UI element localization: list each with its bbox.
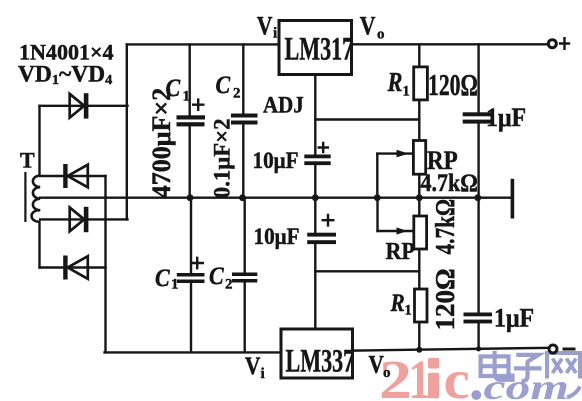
svg-text:RP: RP [386, 238, 415, 265]
svg-text:1μF: 1μF [486, 104, 526, 132]
svg-text:4.7kΩ: 4.7kΩ [421, 170, 478, 198]
svg-text:1: 1 [183, 89, 191, 105]
svg-text:R: R [387, 68, 403, 97]
svg-text:T: T [20, 148, 35, 173]
svg-text:0.1μF×2: 0.1μF×2 [209, 119, 235, 199]
svg-text:V: V [360, 13, 376, 41]
svg-text:2: 2 [233, 86, 241, 102]
svg-text:10μF: 10μF [254, 223, 300, 249]
svg-text:120Ω: 120Ω [430, 268, 460, 330]
svg-text:i: i [261, 366, 265, 382]
svg-text:V: V [257, 13, 273, 41]
svg-text:R: R [390, 289, 405, 317]
svg-text:VD1~VD4: VD1~VD4 [18, 62, 112, 88]
svg-text:C: C [155, 265, 170, 293]
svg-text:1: 1 [403, 84, 410, 100]
svg-text:120Ω: 120Ω [428, 67, 478, 102]
svg-text:4.7kΩ: 4.7kΩ [431, 199, 461, 255]
svg-text:1μF: 1μF [494, 305, 534, 333]
svg-text:o: o [383, 365, 391, 381]
svg-text:C: C [209, 263, 224, 291]
svg-text:1: 1 [409, 350, 431, 401]
svg-text:V: V [369, 351, 385, 379]
svg-text:V: V [245, 352, 261, 380]
svg-text:4700μF×2: 4700μF×2 [147, 88, 176, 198]
svg-text:LM337: LM337 [286, 343, 355, 379]
svg-text:LM317: LM317 [285, 31, 354, 67]
svg-text:C: C [216, 72, 231, 100]
svg-text:i: i [273, 26, 277, 42]
svg-text:1: 1 [405, 303, 412, 319]
svg-text:10μF: 10μF [253, 147, 299, 173]
svg-text:ADJ: ADJ [263, 91, 304, 117]
svg-text:1: 1 [171, 277, 179, 293]
svg-text:2: 2 [225, 277, 233, 293]
svg-text:c: c [444, 350, 470, 401]
svg-text:o: o [377, 27, 385, 43]
